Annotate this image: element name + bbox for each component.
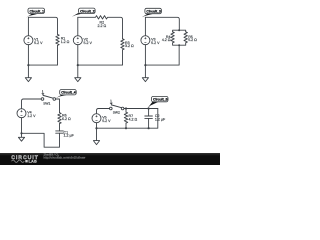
svg-text:1.2 V: 1.2 V [27, 114, 36, 118]
svg-text:Circuit_3: Circuit_3 [146, 10, 161, 14]
svg-text:Circuit_5: Circuit_5 [153, 98, 168, 102]
svg-text:2.2 Ω: 2.2 Ω [97, 24, 106, 28]
svg-text:1.2 µF: 1.2 µF [64, 133, 75, 137]
svg-text:1.2 Ω: 1.2 Ω [61, 40, 70, 44]
svg-text:Circuit_4: Circuit_4 [61, 91, 76, 95]
svg-text:5.2 V: 5.2 V [84, 41, 93, 45]
svg-text:SW1: SW1 [43, 102, 50, 106]
svg-text:6.2 Ω: 6.2 Ω [62, 117, 71, 121]
svg-text:SW2: SW2 [113, 111, 120, 115]
svg-text:4.2 Ω: 4.2 Ω [162, 38, 171, 42]
svg-text:http://circuitlab.com/c6v25u5e: http://circuitlab.com/c6v25u5esw [44, 156, 87, 160]
svg-text:1.2 µF: 1.2 µF [155, 117, 166, 121]
svg-text:LAB: LAB [29, 160, 37, 164]
svg-text:Circuit_1: Circuit_1 [30, 9, 45, 13]
svg-text:5.2 V: 5.2 V [102, 119, 111, 123]
svg-text:4.2 Ω: 4.2 Ω [129, 118, 138, 122]
svg-text:5.2 Ω: 5.2 Ω [188, 38, 197, 42]
svg-text:3.2 Ω: 3.2 Ω [125, 44, 134, 48]
svg-text:5.2 V: 5.2 V [34, 41, 43, 45]
svg-text:Circuit_2: Circuit_2 [80, 9, 95, 13]
svg-text:5.2 V: 5.2 V [151, 41, 160, 45]
